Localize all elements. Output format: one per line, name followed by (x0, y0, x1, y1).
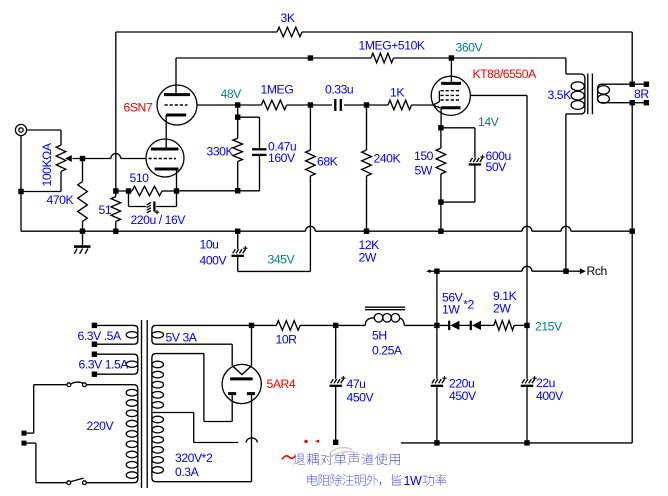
svg-text:Rch: Rch (587, 264, 607, 278)
svg-text:215V: 215V (535, 320, 563, 334)
svg-text:330K: 330K (207, 145, 234, 159)
svg-text:510: 510 (130, 171, 150, 185)
svg-text:160V: 160V (268, 151, 296, 165)
svg-text:450V: 450V (449, 389, 477, 403)
svg-text:220V: 220V (87, 419, 115, 433)
svg-text:1W: 1W (442, 303, 460, 317)
svg-text:2W: 2W (493, 302, 511, 316)
svg-text:6.3V .5A: 6.3V .5A (78, 329, 122, 343)
svg-text:68K: 68K (317, 155, 338, 169)
svg-text:1MEG+510K: 1MEG+510K (359, 39, 425, 53)
svg-text:6.3V 1.5A: 6.3V 1.5A (79, 358, 130, 372)
svg-text:0.33u: 0.33u (325, 83, 353, 97)
svg-text:100KΩA: 100KΩA (40, 142, 54, 186)
svg-text:KT88/6550A: KT88/6550A (473, 67, 538, 81)
svg-text:3.5K: 3.5K (548, 88, 572, 102)
svg-text:240K: 240K (374, 152, 401, 166)
svg-text:400V: 400V (536, 389, 564, 403)
svg-text:1W: 1W (404, 474, 423, 488)
svg-text:1MEG: 1MEG (261, 83, 294, 97)
svg-text:3K: 3K (281, 11, 295, 25)
svg-text:150: 150 (414, 149, 434, 163)
svg-text:8R: 8R (634, 87, 649, 101)
svg-text:22u: 22u (536, 376, 555, 390)
svg-text:50V: 50V (486, 160, 508, 174)
svg-text:6SN7: 6SN7 (124, 101, 153, 115)
svg-text:2W: 2W (359, 251, 377, 265)
svg-text:470K: 470K (47, 193, 74, 207)
svg-text:5W: 5W (415, 163, 433, 177)
svg-text:360V: 360V (456, 41, 484, 55)
svg-text:47u: 47u (347, 377, 366, 391)
svg-text:*2: *2 (463, 297, 474, 311)
svg-text:10R: 10R (276, 332, 298, 346)
svg-text:51: 51 (99, 203, 112, 217)
svg-text:400V: 400V (200, 253, 228, 267)
svg-text:320V*2: 320V*2 (175, 451, 213, 465)
svg-text:5AR4: 5AR4 (267, 377, 296, 391)
svg-text:5V 3A: 5V 3A (166, 330, 198, 344)
svg-text:0.3A: 0.3A (175, 465, 200, 479)
svg-text:14V: 14V (478, 115, 500, 129)
svg-text:5H: 5H (372, 329, 387, 343)
svg-text:10u: 10u (200, 238, 219, 252)
svg-text:450V: 450V (347, 390, 375, 404)
svg-text:0.25A: 0.25A (372, 344, 403, 358)
svg-text:345V: 345V (268, 252, 296, 266)
svg-text:48V: 48V (221, 87, 243, 101)
svg-text:220u / 16V: 220u / 16V (131, 213, 187, 227)
svg-text:1K: 1K (390, 86, 404, 100)
